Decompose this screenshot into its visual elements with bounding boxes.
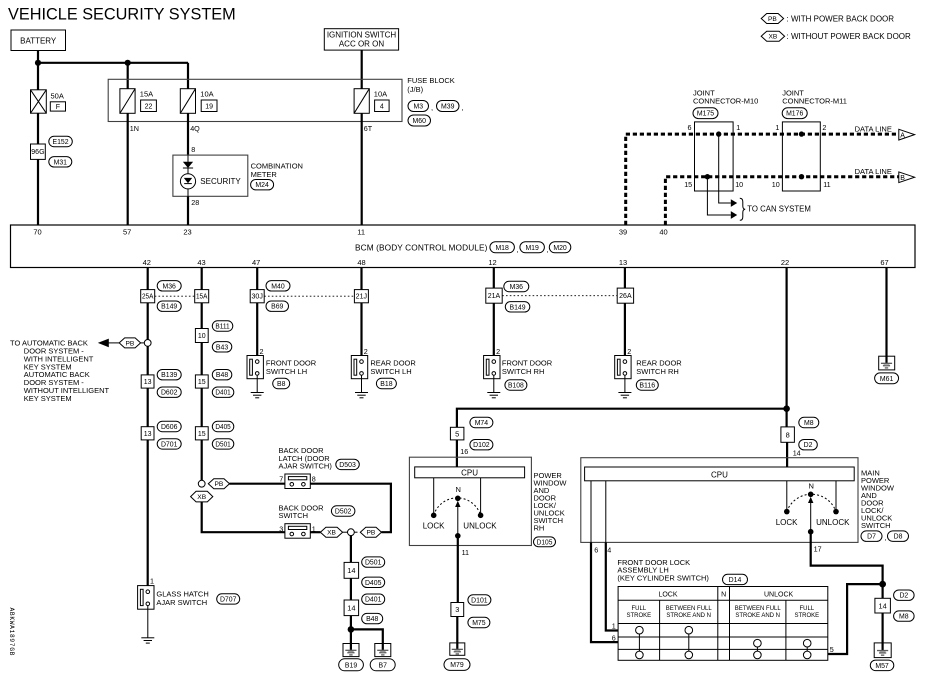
svg-text:AJAR SWITCH): AJAR SWITCH): [279, 462, 333, 471]
legend tag XB: [761, 31, 784, 41]
wire BCM12 segment 1: [493, 268, 495, 289]
connector ref D7: [861, 531, 882, 542]
connector ref M31: [49, 157, 72, 167]
svg-text:21A: 21A: [488, 293, 501, 300]
svg-text:BCM (BODY CONTROL MODULE): BCM (BODY CONTROL MODULE): [355, 243, 488, 253]
BCM (Body Control Module) box: [11, 225, 916, 268]
svg-text:M8: M8: [899, 614, 909, 621]
svg-text:A: A: [900, 132, 905, 139]
wire pin 6 to key cylinder row: [591, 542, 618, 642]
svg-text:M176: M176: [786, 111, 803, 118]
connector ref M61: [875, 373, 899, 384]
svg-text:B43: B43: [216, 344, 228, 351]
contact N RH: [455, 496, 461, 502]
svg-text:SECURITY: SECURITY: [200, 177, 241, 186]
svg-text:3: 3: [455, 605, 459, 614]
svg-text:48: 48: [357, 258, 365, 267]
wire junction to key cylinder pin 5: [828, 584, 883, 654]
svg-text:STROKE: STROKE: [626, 613, 651, 619]
connector ref M60: [408, 115, 431, 126]
contact UNLOCK RH: [478, 513, 484, 519]
svg-text:SWITCH LH: SWITCH LH: [266, 367, 307, 376]
rear door switch LH: [351, 356, 367, 393]
ground: [487, 393, 500, 398]
svg-text:D701: D701: [161, 441, 178, 448]
wire BCM43 segment 2: [201, 303, 203, 329]
svg-text:7: 7: [279, 475, 283, 484]
svg-text:14: 14: [347, 603, 355, 612]
connector pin box 3: [451, 603, 464, 617]
selector arc RH: [434, 498, 481, 515]
wire pin 17 to junction: [811, 532, 883, 599]
connector ref M57: [870, 660, 894, 671]
connector pin box 15A: [195, 290, 209, 303]
svg-text:13: 13: [144, 431, 152, 438]
fuse id box 4: [375, 100, 390, 112]
connector ref D14: [723, 574, 748, 584]
battery: [11, 30, 66, 51]
wire 3 to ground M79: [456, 617, 458, 643]
svg-text:19: 19: [205, 103, 213, 110]
fuse id box 19: [201, 100, 217, 112]
svg-text:1: 1: [775, 123, 779, 132]
fuse 10A #19: [180, 89, 195, 114]
connector ref D707: [217, 594, 240, 604]
svg-text:11: 11: [357, 228, 365, 237]
arrow to automatic back door: [98, 339, 109, 348]
wire 96G to BCM pin 70: [37, 159, 39, 225]
connector ref D2 (lower): [894, 590, 915, 600]
ignition switch: [324, 29, 398, 50]
svg-text:STROKE AND N: STROKE AND N: [666, 613, 711, 619]
connector ref M19: [520, 242, 545, 253]
svg-text:6T: 6T: [364, 124, 373, 133]
CAN arrow lower: [731, 211, 737, 219]
dotted link 30J-21J: [264, 295, 354, 297]
svg-text:M8: M8: [804, 420, 814, 427]
fuse 15A #22: [120, 89, 135, 114]
connector ref E152: [49, 136, 73, 146]
wire battery bus: [38, 62, 188, 64]
svg-text:1: 1: [612, 622, 616, 631]
fuse 10A #4: [354, 89, 369, 114]
svg-text:D502: D502: [335, 508, 352, 515]
ground M79: [450, 643, 465, 655]
wire to automatic back door system: [109, 342, 120, 344]
svg-text:SWITCH: SWITCH: [279, 511, 309, 520]
svg-text:2: 2: [496, 347, 500, 356]
wire BCM22 trunk: [785, 268, 787, 427]
wire BCM43 segment 3: [201, 343, 203, 375]
wire PB to junction: [354, 531, 357, 533]
svg-text:BATTERY: BATTERY: [20, 37, 57, 46]
connector ref D101: [468, 595, 491, 605]
selector arrow main: [808, 497, 813, 532]
svg-text:SWITCH RH: SWITCH RH: [636, 367, 679, 376]
svg-text:D405: D405: [365, 580, 382, 587]
option tag PB (latch): [208, 479, 229, 489]
svg-text:DATA LINE: DATA LINE: [855, 124, 892, 133]
connector ref D701: [157, 439, 181, 449]
connector ref B108: [505, 380, 527, 390]
wire CPU to LOCK contact main: [786, 481, 788, 512]
connector ref M40: [266, 281, 290, 291]
connector ref M79: [444, 659, 470, 671]
security LED indicator: [180, 174, 195, 189]
svg-text:: WITH POWER BACK DOOR: : WITH POWER BACK DOOR: [787, 15, 895, 24]
back door latch (door ajar switch): [285, 474, 310, 489]
key cylinder switch table: [618, 587, 828, 661]
svg-text:43: 43: [197, 258, 205, 267]
connector ref D102: [470, 440, 493, 450]
svg-text:METER: METER: [251, 170, 278, 179]
svg-text:TO CAN SYSTEM: TO CAN SYSTEM: [747, 205, 811, 214]
svg-text:ABKWA1897GB: ABKWA1897GB: [8, 608, 15, 657]
connector ref M39: [437, 101, 460, 112]
connector ref B8: [273, 378, 290, 388]
svg-text:D707: D707: [220, 596, 237, 603]
svg-text:11: 11: [462, 548, 469, 557]
ground: [251, 393, 264, 398]
data line B (shielded): [665, 177, 899, 225]
wire 5 to CPU RH: [456, 440, 458, 467]
svg-text:14: 14: [879, 601, 887, 610]
connector ref M176: [782, 108, 807, 119]
svg-text:67: 67: [880, 258, 888, 267]
connector ref M36: [157, 281, 181, 291]
connector ref D405 (lower): [362, 577, 385, 587]
svg-text:PB: PB: [768, 16, 777, 23]
connector ref B48: [212, 370, 232, 380]
wire BCM13 segment 1: [624, 268, 626, 289]
wire latch pin 8 to PB: [310, 484, 391, 533]
option tag PB (back door system): [119, 338, 140, 348]
svg-text:8: 8: [786, 430, 790, 439]
svg-text:SWITCH RH: SWITCH RH: [502, 367, 545, 376]
connector pin box 5: [450, 427, 464, 440]
connector pin box 25A: [141, 290, 155, 303]
svg-text:XB: XB: [327, 530, 336, 537]
wire BCM42 segment 5: [147, 440, 149, 586]
wire joint connector to CAN B: [707, 177, 730, 215]
back door switch: [285, 524, 310, 539]
ground B19: [343, 644, 359, 657]
connector ref D606: [157, 421, 181, 431]
svg-text:VEHICLE SECURITY SYSTEM: VEHICLE SECURITY SYSTEM: [8, 5, 236, 23]
svg-text:D501: D501: [215, 441, 230, 448]
junction data line B in M10: [705, 174, 710, 179]
svg-text:47: 47: [252, 258, 260, 267]
svg-text:PB: PB: [126, 340, 135, 347]
svg-text:2: 2: [364, 347, 368, 356]
wire meter to BCM pin 23: [187, 196, 189, 225]
svg-text:M3: M3: [413, 103, 423, 110]
connector ref M175: [693, 108, 718, 119]
svg-text:1: 1: [312, 524, 316, 533]
wire CPU to pin 4 inside: [605, 481, 607, 543]
svg-text:D401: D401: [215, 390, 230, 397]
svg-text:10A: 10A: [200, 90, 213, 99]
wire 14 to ground junction: [350, 616, 352, 644]
junction selector main: [808, 529, 814, 535]
svg-text:5: 5: [455, 429, 459, 438]
svg-text:2: 2: [627, 347, 631, 356]
connector pin box 21A: [486, 288, 502, 303]
svg-text:AJAR SWITCH: AJAR SWITCH: [156, 598, 207, 607]
svg-text:,: ,: [885, 533, 887, 542]
connector ref M3: [408, 101, 429, 112]
svg-text:D602: D602: [161, 390, 178, 397]
wire CPU to LOCK contact RH: [433, 478, 435, 516]
wire BCM42 segment 2: [147, 303, 149, 340]
connector ref D405: [212, 421, 234, 431]
svg-text:B48: B48: [366, 616, 378, 623]
wire 1N to BCM pin 57: [127, 113, 129, 225]
svg-text:N: N: [808, 482, 813, 491]
svg-text:N: N: [721, 591, 726, 598]
svg-text:B108: B108: [508, 382, 524, 389]
diode: [183, 162, 193, 168]
wire joint connector to CAN A: [719, 134, 731, 203]
key cylinder contact pair unlock col 807.2: [803, 639, 811, 658]
wire BCM48 segment 1: [360, 268, 362, 290]
svg-text:5: 5: [830, 645, 834, 654]
svg-text:M36: M36: [510, 284, 524, 291]
svg-text:D501: D501: [365, 560, 382, 567]
svg-text:6: 6: [612, 634, 616, 643]
connector ref B7: [370, 659, 395, 671]
svg-text:M40: M40: [271, 283, 285, 290]
svg-text:B: B: [900, 175, 905, 182]
data line A (shielded): [626, 134, 899, 225]
svg-text:F: F: [56, 104, 60, 111]
svg-text:10: 10: [198, 333, 206, 340]
data line arrow B: [899, 172, 915, 183]
svg-text:22: 22: [781, 258, 789, 267]
svg-text:,: ,: [517, 245, 519, 254]
front door switch RH: [484, 356, 500, 393]
svg-text:96G: 96G: [31, 149, 44, 156]
wire BCM47 segment 2: [256, 303, 258, 360]
wire BCM43 segment 1: [201, 268, 203, 290]
wire BCM42 segment 3: [147, 346, 149, 375]
front door switch LH: [247, 356, 263, 393]
svg-text:15: 15: [198, 379, 206, 386]
option tag PB (switch output): [360, 527, 381, 537]
svg-text:M74: M74: [475, 420, 489, 427]
connector ref D503: [336, 459, 360, 469]
contact UNLOCK main: [833, 509, 839, 515]
selector arrow RH: [455, 501, 460, 536]
svg-text:21J: 21J: [356, 294, 367, 301]
junction battery bus left: [35, 60, 41, 66]
svg-text:: WITHOUT POWER BACK DOOR: : WITHOUT POWER BACK DOOR: [787, 32, 912, 41]
svg-text:DATA LINE: DATA LINE: [855, 167, 892, 176]
wire junction to B7 ground: [351, 629, 383, 643]
junction circle PB takeoff: [144, 340, 151, 347]
svg-text:1: 1: [150, 577, 154, 586]
connector ref D401 (lower): [362, 594, 385, 604]
wire 6T to BCM pin 11: [361, 113, 363, 225]
svg-text:D503: D503: [339, 462, 356, 469]
junction ground split: [348, 626, 355, 633]
connector ref B48 (lower): [362, 613, 383, 623]
svg-text:ACC OR ON: ACC OR ON: [339, 39, 385, 48]
svg-text:FULL: FULL: [799, 606, 814, 612]
power window and door lock/unlock switch RH box: [409, 457, 531, 545]
wire PB tag to junction: [141, 342, 145, 344]
ground glass hatch: [141, 638, 154, 643]
connector pin box 21J: [354, 290, 368, 303]
svg-text:D7: D7: [867, 534, 876, 541]
connector ref D501: [212, 439, 234, 449]
svg-text:E152: E152: [53, 139, 69, 146]
svg-text:15A: 15A: [196, 294, 208, 301]
svg-text:CONNECTOR-M10: CONNECTOR-M10: [693, 96, 758, 105]
svg-text:UNLOCK: UNLOCK: [816, 518, 850, 527]
svg-text:50A: 50A: [51, 92, 64, 101]
svg-text:1: 1: [736, 123, 740, 132]
svg-text:D102: D102: [473, 442, 490, 449]
svg-text:D405: D405: [215, 424, 230, 431]
connector ref B149 (RH): [505, 302, 530, 312]
svg-text:PB: PB: [367, 530, 376, 537]
key cylinder contact pair unlock col 757.4: [754, 639, 762, 658]
connector pin box 13: [141, 375, 154, 388]
fuse block (J/B) outline: [108, 79, 402, 121]
connector ref D8: [888, 531, 909, 542]
junction key cylinder feed: [879, 581, 886, 588]
contact N main: [808, 492, 814, 498]
svg-text:XB: XB: [197, 494, 206, 501]
data line arrow A: [899, 129, 915, 140]
selector arc main: [787, 494, 836, 511]
connector ref D502: [331, 506, 355, 516]
wire to 14 connector: [350, 536, 352, 563]
svg-text:6: 6: [688, 123, 692, 132]
junction circle back door branch: [198, 480, 205, 487]
svg-text:M24: M24: [255, 182, 269, 189]
ground M57: [874, 643, 891, 658]
svg-text:BETWEEN FULL: BETWEEN FULL: [666, 606, 713, 612]
svg-text:B139: B139: [161, 372, 177, 379]
connector ref D2: [799, 440, 818, 450]
svg-text:(J/B): (J/B): [407, 85, 423, 94]
svg-text:LOCK: LOCK: [658, 591, 677, 598]
svg-text:57: 57: [123, 228, 131, 237]
wire battery to fusible link: [37, 51, 39, 90]
svg-text:LOCK: LOCK: [423, 522, 445, 531]
svg-text:28: 28: [191, 198, 199, 207]
ground: [355, 393, 368, 398]
wire fusible link to 96G: [37, 113, 39, 144]
svg-text:CPU: CPU: [461, 469, 478, 478]
wire back door switch pin 1 to XB: [310, 531, 320, 533]
connector ref B43: [212, 342, 232, 352]
connector pin box 10: [195, 329, 208, 343]
svg-text:8: 8: [191, 145, 195, 154]
connector ref D602: [157, 387, 181, 397]
wire RH switch pin 11 down: [457, 536, 459, 603]
svg-text:(KEY CYLINDER SWITCH): (KEY CYLINDER SWITCH): [617, 573, 709, 582]
svg-text:SWITCH LH: SWITCH LH: [370, 367, 411, 376]
connector ref D501 (lower): [362, 557, 385, 567]
svg-text:1N: 1N: [130, 124, 139, 133]
svg-text:N: N: [455, 485, 460, 494]
CAN arrow upper: [731, 199, 737, 207]
glass hatch ajar switch: [138, 586, 154, 638]
wire pin 4 to key cylinder row: [606, 542, 618, 630]
main power window and door lock/unlock switch box: [581, 458, 858, 543]
svg-text:2: 2: [260, 347, 264, 356]
svg-text:42: 42: [143, 258, 151, 267]
junction data line A in M10: [716, 131, 721, 136]
wire BCM67 to ground: [885, 268, 887, 357]
wire CPU to UNLOCK contact main: [835, 481, 837, 512]
svg-text:B116: B116: [639, 382, 655, 389]
junction data line A in M11: [799, 131, 804, 136]
svg-text:M31: M31: [54, 159, 68, 166]
svg-text:6: 6: [594, 546, 598, 555]
connector ref B69: [266, 301, 289, 311]
svg-text:RH: RH: [534, 524, 545, 533]
svg-text:3: 3: [279, 524, 283, 533]
svg-text:22: 22: [145, 103, 153, 110]
svg-text:40: 40: [659, 228, 667, 237]
wire bus to fuse 22: [127, 63, 129, 89]
bracket: [740, 198, 745, 220]
dotted link 25A-15A: [155, 295, 195, 297]
ground M61: [879, 356, 895, 370]
svg-text:15: 15: [684, 180, 692, 189]
svg-text:13: 13: [619, 258, 627, 267]
wire ignition to fuse 4: [361, 50, 363, 89]
svg-text:D14: D14: [729, 577, 742, 584]
connector pin box 14 (second): [344, 600, 359, 616]
connector ref M36 (RH): [504, 281, 529, 291]
svg-text:M79: M79: [450, 662, 464, 669]
svg-text:15A: 15A: [140, 90, 153, 99]
svg-text:39: 39: [619, 228, 627, 237]
connector ref M8: [799, 417, 819, 427]
svg-text:2: 2: [822, 123, 826, 132]
connector pin box 14 (right): [875, 598, 891, 613]
svg-text:10: 10: [772, 180, 780, 189]
svg-text:D101: D101: [471, 597, 488, 604]
connector ref B149: [157, 301, 181, 311]
wire 14 to ground M57: [881, 613, 883, 643]
wire CPU to UNLOCK contact RH: [480, 478, 482, 516]
CPU bar RH: [415, 467, 525, 478]
svg-text:30J: 30J: [252, 294, 263, 301]
option tag XB (switch): [191, 491, 213, 502]
connector pin box 96G: [31, 144, 46, 159]
wire bus to fuse 19: [187, 63, 189, 89]
svg-text:IGNITION SWITCH: IGNITION SWITCH: [327, 31, 397, 40]
svg-text:14: 14: [793, 449, 801, 458]
svg-text:23: 23: [183, 228, 191, 237]
fusible link 50A F: [31, 90, 47, 113]
ground: [618, 393, 631, 398]
connector ref B18: [376, 378, 396, 388]
wire 4Q to combination meter: [187, 113, 189, 155]
svg-text:,: ,: [462, 103, 464, 112]
svg-text:B18: B18: [380, 381, 392, 388]
svg-text:UNLOCK: UNLOCK: [463, 522, 497, 531]
connector pin box 26A: [617, 288, 633, 303]
wire junction to XB: [343, 531, 348, 533]
svg-text:CONNECTOR-M11: CONNECTOR-M11: [782, 96, 847, 105]
